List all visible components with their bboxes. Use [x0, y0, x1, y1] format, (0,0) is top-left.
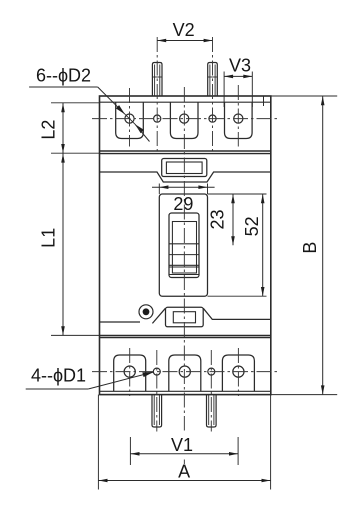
- top flange lip line: [100, 101, 271, 103]
- dimension V1 line: [129, 437, 131, 465]
- accessory window inner: [173, 312, 195, 323]
- dimension L1 line: [51, 334, 100, 336]
- lower step left diagonal: [152, 308, 165, 323]
- bottom terminal pad 3: [222, 355, 254, 391]
- dimension B line: [271, 95, 337, 97]
- bottom post left centerline: [156, 350, 158, 432]
- nameplate outer: [162, 159, 207, 177]
- handle ridge 3a: [169, 264, 199, 266]
- svg-text:L2: L2: [39, 120, 59, 140]
- handle outer: [169, 213, 199, 278]
- bottom screw post right: [207, 395, 217, 427]
- bottom terminal pad 2: [169, 355, 201, 391]
- bottom hole 3 centerline: [237, 348, 239, 396]
- bottom terminal pad 1: [114, 355, 146, 391]
- top hole 1 centerline: [129, 88, 131, 147]
- top terminal pad 2: [170, 102, 198, 138]
- top screw post right: [208, 63, 218, 97]
- top terminal hole 1 (phi D2): [125, 114, 134, 123]
- dimension L2 line: [51, 102, 100, 104]
- bottom screw post left: [152, 395, 162, 427]
- main vertical centerline: [183, 87, 185, 431]
- handle ridge 1: [169, 243, 199, 245]
- svg-text:29: 29: [173, 194, 193, 214]
- bottom holes row centerline: [92, 371, 278, 373]
- top terminal hole 3 (phi D2): [234, 114, 243, 123]
- top small hole right (phi D2): [209, 115, 216, 122]
- handle ridge 2: [169, 254, 199, 256]
- dimension 29 line: [158, 184, 160, 195]
- top screw post left: [152, 63, 162, 97]
- handle ridge 4: [169, 274, 199, 276]
- center body top edge: [100, 153, 271, 155]
- bottom small hole left (phi D1): [153, 368, 160, 375]
- handle window: [159, 194, 207, 296]
- svg-text:B: B: [300, 242, 320, 254]
- leader 6--phiD2: [29, 86, 98, 88]
- bottom small hole right (phi D1): [208, 368, 215, 375]
- svg-text:V2: V2: [173, 20, 195, 40]
- svg-text:L1: L1: [39, 228, 59, 248]
- accessory window outer: [166, 307, 204, 327]
- bottom flange lower lip: [100, 390, 271, 392]
- top small hole left (phi D2): [154, 115, 161, 122]
- top hole 3 centerline: [237, 85, 239, 147]
- handle ridge 3b: [169, 266, 199, 268]
- top terminal pad 3: [225, 102, 253, 138]
- dimension V3 line: [224, 75, 252, 77]
- top post left centerline: [156, 37, 158, 151]
- svg-text:4--ϕD1: 4--ϕD1: [31, 366, 86, 386]
- handle inner: [172, 222, 196, 274]
- test button center: [143, 308, 150, 315]
- svg-text:A: A: [178, 461, 190, 481]
- flange corner stub: [263, 97, 265, 107]
- top terminal pad 1: [116, 102, 144, 138]
- dimension A line: [97, 395, 99, 490]
- svg-text:52: 52: [242, 216, 262, 236]
- top flange bottom edge: [100, 150, 271, 152]
- dimension 23 line: [208, 193, 267, 195]
- top post right centerline: [212, 37, 214, 151]
- svg-text:23: 23: [208, 209, 228, 229]
- top holes row centerline: [92, 118, 278, 120]
- nameplate inner: [166, 162, 202, 174]
- svg-text:V3: V3: [229, 56, 251, 76]
- top terminal hole 2 (phi D2): [180, 114, 189, 123]
- escutcheon top shoulder: [100, 172, 271, 182]
- dimension 52 line: [208, 295, 267, 297]
- bottom terminal hole 1 (phi D1): [124, 366, 135, 377]
- bottom hole 1 centerline: [129, 348, 131, 396]
- center body bottom edge: [100, 335, 271, 337]
- lower step left: [100, 321, 141, 323]
- bottom post right centerline: [210, 350, 212, 432]
- bottom flange top edge: [100, 337, 271, 339]
- test button ring: [139, 305, 153, 319]
- main centerline lower dot: [183, 460, 185, 465]
- svg-text:6--ϕD2: 6--ϕD2: [36, 66, 91, 86]
- bottom terminal hole 3 (phi D1): [233, 366, 244, 377]
- svg-text:V1: V1: [171, 435, 193, 455]
- lower step right: [203, 308, 271, 319]
- bottom terminal hole 2 (phi D1): [179, 366, 190, 377]
- breaker body outline: [100, 96, 271, 395]
- dimension V2 line: [157, 40, 212, 42]
- leader 4--phiD1: [26, 388, 88, 390]
